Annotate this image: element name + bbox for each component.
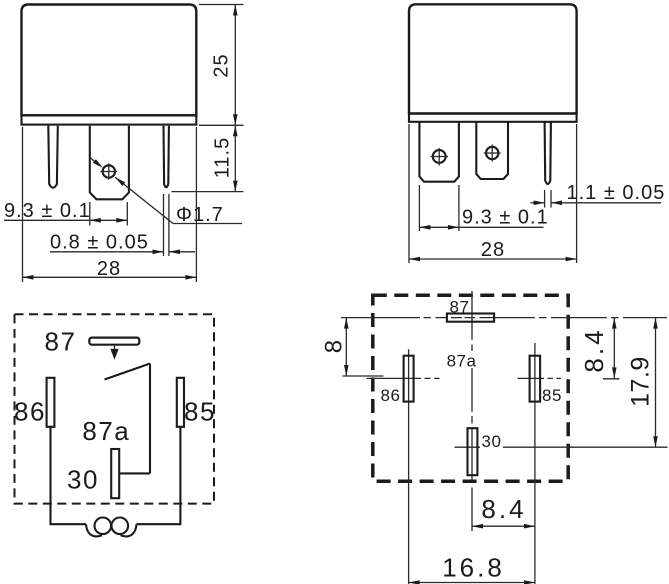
svg-text:1.1 ± 0.05: 1.1 ± 0.05: [567, 182, 666, 204]
svg-text:16.8: 16.8: [442, 553, 505, 583]
svg-text:11.5: 11.5: [211, 137, 233, 178]
svg-text:0.8 ± 0.05: 0.8 ± 0.05: [50, 232, 149, 254]
svg-text:87a: 87a: [447, 352, 477, 371]
svg-text:30: 30: [482, 432, 502, 451]
svg-text:9.3 ± 0.1: 9.3 ± 0.1: [4, 200, 91, 222]
svg-text:9.3 ± 0.1: 9.3 ± 0.1: [462, 207, 549, 229]
svg-text:30: 30: [67, 465, 99, 495]
svg-text:28: 28: [481, 239, 505, 261]
svg-text:87: 87: [450, 297, 470, 316]
svg-text:8.4: 8.4: [481, 494, 526, 524]
svg-text:8: 8: [321, 340, 348, 353]
svg-text:85: 85: [542, 386, 562, 405]
svg-text:87a: 87a: [82, 416, 130, 446]
svg-text:86: 86: [14, 397, 46, 427]
svg-text:25: 25: [211, 53, 233, 77]
svg-text:28: 28: [97, 258, 121, 280]
svg-text:17.9: 17.9: [627, 356, 655, 407]
svg-text:8.4: 8.4: [579, 327, 609, 372]
svg-text:86: 86: [381, 386, 401, 405]
svg-text:87: 87: [45, 327, 77, 357]
svg-text:Φ1.7: Φ1.7: [176, 204, 224, 226]
svg-text:85: 85: [184, 397, 216, 427]
